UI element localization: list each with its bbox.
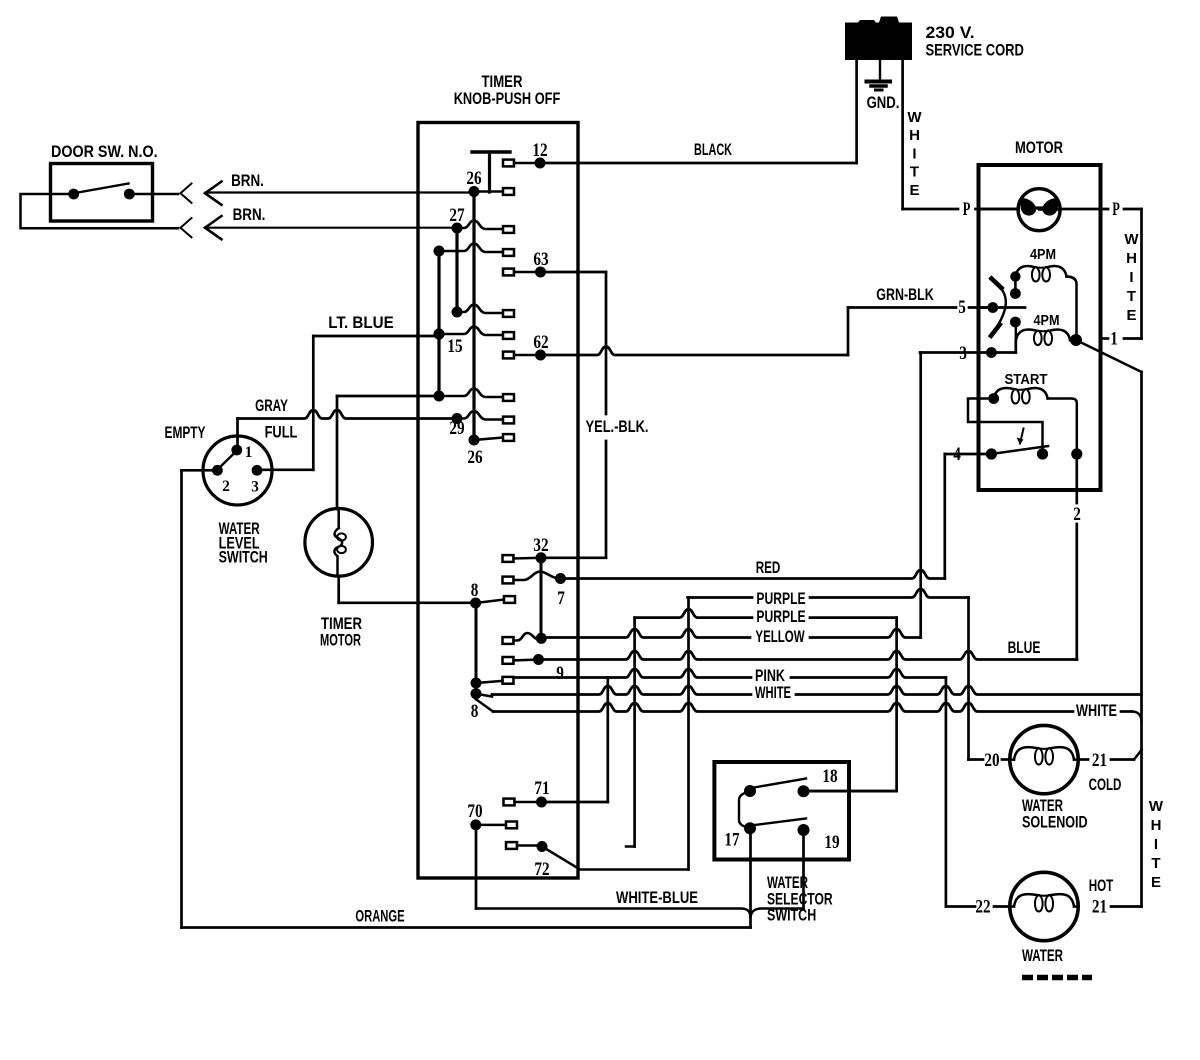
timer bus 251-396 bbox=[437, 251, 440, 396]
svg-text:I: I bbox=[1129, 269, 1133, 286]
svg-text:FULL: FULL bbox=[265, 423, 298, 442]
svg-text:26: 26 bbox=[466, 168, 481, 189]
wire GRN-BLK timer 62 to motor 5 bbox=[541, 308, 992, 356]
wire door switch to connector bbox=[129, 193, 178, 196]
timer terminal row 396 gray bbox=[434, 389, 515, 402]
selector hook 17 bbox=[724, 791, 839, 853]
timer terminal row 251 bbox=[434, 244, 515, 257]
motor start switch bbox=[986, 429, 1083, 460]
wire YELLOW bbox=[541, 629, 920, 638]
wire white to cold solenoid bbox=[477, 700, 1142, 722]
svg-text:17: 17 bbox=[724, 830, 740, 851]
svg-text:WHITE-BLUE: WHITE-BLUE bbox=[616, 888, 698, 907]
wire 72 diagonal and riser to purple bbox=[542, 598, 689, 870]
timer bus 27 segment bbox=[455, 228, 458, 312]
svg-text:63: 63 bbox=[533, 249, 548, 270]
svg-text:19: 19 bbox=[824, 832, 839, 853]
wire P into protector bbox=[979, 208, 1109, 211]
svg-text:SERVICE CORD: SERVICE CORD bbox=[926, 41, 1024, 60]
label WHITE vertical right bottom bbox=[1149, 798, 1164, 891]
wire 17 to orange bbox=[749, 917, 752, 928]
svg-text:EMPTY: EMPTY bbox=[165, 423, 206, 442]
selector contacts 18 bbox=[744, 766, 838, 797]
svg-text:RED: RED bbox=[756, 558, 781, 577]
door switch contacts bbox=[68, 184, 134, 200]
motor centrifugal contact dots bbox=[1010, 281, 1021, 299]
motor start winding bbox=[988, 388, 1077, 454]
ground symbol bbox=[867, 60, 891, 90]
svg-text:1: 1 bbox=[1110, 329, 1118, 350]
motor terminal 5 bar bbox=[979, 302, 1026, 313]
timer terminal 71 bbox=[504, 778, 550, 808]
stub vertical from purple2 bbox=[626, 618, 635, 847]
svg-text:WATER: WATER bbox=[1022, 946, 1063, 965]
svg-text:I: I bbox=[1154, 836, 1158, 853]
svg-text:W: W bbox=[1149, 798, 1164, 815]
label 230 V. SERVICE CORD bbox=[926, 23, 1024, 60]
svg-text:BRN.: BRN. bbox=[233, 205, 266, 224]
svg-text:DOOR SW. N.O.: DOOR SW. N.O. bbox=[51, 142, 158, 161]
arrowhead BRN bottom bbox=[205, 216, 222, 239]
label TIMER MOTOR bbox=[320, 614, 362, 650]
wire motor 4 to red bbox=[945, 454, 992, 579]
wire cold 21 to rail bbox=[1078, 750, 1141, 760]
svg-text:12: 12 bbox=[532, 140, 547, 161]
svg-text:COLD: COLD bbox=[1089, 775, 1122, 794]
wire P right bracket white bbox=[1124, 209, 1142, 339]
svg-text:2: 2 bbox=[222, 478, 230, 495]
timer node 8 upper bbox=[470, 580, 515, 609]
svg-text:4PM: 4PM bbox=[1030, 247, 1056, 263]
wire timer motor to node 8 bbox=[339, 576, 476, 603]
svg-text:1: 1 bbox=[245, 444, 253, 461]
wire timer 32 to YEL-BLK bbox=[541, 556, 606, 559]
svg-text:70: 70 bbox=[467, 801, 482, 822]
label WHITE vertical service bbox=[907, 109, 922, 199]
white rail right bbox=[1140, 372, 1143, 907]
svg-text:H: H bbox=[1126, 250, 1137, 267]
motor start bracket bbox=[968, 399, 1043, 455]
wire WHITE-BLUE from 70 bbox=[476, 909, 751, 917]
timer terminal 70 bbox=[467, 801, 517, 830]
wire purple upper drop to cold 20 bbox=[969, 598, 1011, 760]
svg-text:GRN-BLK: GRN-BLK bbox=[876, 285, 933, 304]
wire hot 21 to rail bbox=[1111, 905, 1142, 908]
timer mid dot on bus 439 bbox=[434, 329, 445, 340]
svg-text:HOT: HOT bbox=[1089, 876, 1114, 895]
service cord plug 230V bbox=[845, 17, 912, 61]
label WATER SOLENOID bbox=[1022, 796, 1088, 832]
timer bus node8 bbox=[475, 603, 478, 699]
svg-text:H: H bbox=[909, 127, 920, 144]
svg-text:MOTOR: MOTOR bbox=[1015, 138, 1063, 157]
svg-text:I: I bbox=[912, 145, 916, 162]
label WATER SELECTOR SWITCH bbox=[767, 873, 833, 925]
svg-text:START: START bbox=[1005, 372, 1048, 388]
svg-text:9: 9 bbox=[556, 663, 564, 684]
svg-text:MOTOR: MOTOR bbox=[320, 631, 361, 650]
timer terminal 15 row 334 bbox=[434, 327, 515, 358]
svg-text:27: 27 bbox=[449, 205, 465, 226]
svg-text:ORANGE: ORANGE bbox=[355, 907, 404, 926]
svg-text:GND.: GND. bbox=[867, 93, 900, 112]
timer box bbox=[418, 123, 578, 879]
connector chevron top bbox=[181, 184, 192, 203]
timer terminal 72 bbox=[506, 841, 550, 880]
label WATER LEVEL SWITCH bbox=[219, 519, 268, 567]
svg-text:230 V.: 230 V. bbox=[926, 23, 975, 42]
timer knob push-off switch T bar bbox=[472, 152, 510, 192]
svg-text:5: 5 bbox=[958, 297, 966, 318]
timer bus 26-29 bbox=[472, 192, 475, 441]
water selector switch box bbox=[714, 762, 849, 860]
wire RED bbox=[561, 570, 945, 579]
svg-text:62: 62 bbox=[533, 332, 548, 353]
svg-text:H: H bbox=[1151, 817, 1162, 834]
connector chevron bottom bbox=[181, 218, 192, 237]
svg-text:T: T bbox=[910, 164, 919, 181]
svg-text:YEL.-BLK.: YEL.-BLK. bbox=[586, 417, 649, 436]
diagonal 4PM to white rail bbox=[1076, 340, 1142, 372]
timer pink lug row 680 bbox=[476, 677, 513, 684]
svg-text:72: 72 bbox=[534, 859, 549, 880]
wire white drop from plug bbox=[903, 60, 1019, 209]
svg-text:8: 8 bbox=[471, 580, 479, 601]
timer motor circle bbox=[305, 509, 373, 577]
timer terminal 32 bbox=[503, 535, 549, 563]
wire motor 2 down to blue bbox=[1075, 454, 1078, 660]
svg-text:KNOB-PUSH OFF: KNOB-PUSH OFF bbox=[454, 89, 561, 108]
wire ORANGE bbox=[182, 926, 751, 929]
wire 1 into motor bbox=[1101, 337, 1109, 340]
svg-text:3: 3 bbox=[959, 343, 967, 364]
svg-text:PURPLE: PURPLE bbox=[756, 589, 805, 608]
svg-text:4PM: 4PM bbox=[1034, 313, 1060, 329]
motor protector circle bbox=[1018, 189, 1060, 231]
svg-text:20: 20 bbox=[984, 750, 999, 771]
water level switch circle bbox=[203, 436, 272, 505]
wire 17 down bbox=[749, 834, 752, 917]
motor 4PM upper winding bbox=[1010, 266, 1076, 340]
wire 70 white-blue down bbox=[475, 825, 478, 909]
svg-text:2: 2 bbox=[1073, 504, 1081, 525]
svg-text:26: 26 bbox=[467, 447, 482, 468]
wire 18 to purple riser bbox=[810, 790, 897, 793]
timer terminal 12 bbox=[503, 140, 548, 169]
wire BRN to timer 26 bbox=[206, 191, 475, 193]
svg-text:SWITCH: SWITCH bbox=[219, 548, 268, 567]
wire 71 to pink riser bbox=[542, 678, 608, 803]
timer node 8 lower dots bbox=[471, 678, 482, 723]
svg-text:29: 29 bbox=[449, 418, 464, 439]
cold water solenoid bbox=[1010, 725, 1078, 793]
motor 4PM lower winding bbox=[1010, 317, 1082, 346]
wire PURPLE upper bbox=[688, 589, 969, 598]
label WHITE vertical motor right bbox=[1124, 231, 1139, 324]
wire timer 63 right bbox=[541, 271, 607, 274]
svg-text:P: P bbox=[963, 199, 971, 220]
timer terminal row 418 full bbox=[452, 411, 515, 424]
wire door switch loop bbox=[21, 194, 179, 228]
timer bus 32 down bbox=[540, 558, 543, 639]
door switch box DOOR SW. N.O. bbox=[51, 142, 158, 221]
svg-text:21: 21 bbox=[1092, 897, 1107, 918]
timer terminal 62 bbox=[503, 332, 549, 361]
svg-text:18: 18 bbox=[822, 766, 837, 787]
svg-text:WHITE: WHITE bbox=[755, 683, 791, 702]
wire YEL-BLK vertical 63 to 32 bbox=[605, 272, 608, 558]
wire purple lower drop to selector 18 bbox=[810, 618, 897, 791]
wire LT. BLUE wls3 to timer 15 bbox=[257, 336, 439, 470]
timer node 26 bbox=[466, 168, 514, 197]
timer terminal 29 bbox=[449, 418, 514, 468]
wire BLUE bbox=[539, 651, 1078, 660]
wire GRAY timer-motor to timer bbox=[337, 396, 439, 509]
label WATER bottom cut bbox=[1022, 946, 1092, 978]
svg-text:YELLOW: YELLOW bbox=[755, 627, 804, 646]
wire BLACK timer 12 to service cord bbox=[540, 162, 857, 165]
svg-text:LT. BLUE: LT. BLUE bbox=[328, 313, 394, 332]
motor box bbox=[979, 165, 1101, 490]
wire BRN to timer 27 bbox=[206, 227, 458, 229]
svg-text:W: W bbox=[907, 109, 922, 126]
timer terminal row 312 bbox=[452, 305, 515, 318]
svg-text:BLACK: BLACK bbox=[694, 140, 732, 159]
wire 19 down bbox=[751, 836, 804, 917]
svg-text:15: 15 bbox=[447, 336, 462, 357]
timer terminal 63 bbox=[503, 249, 549, 278]
svg-text:T: T bbox=[1151, 855, 1160, 872]
wire PINK bbox=[514, 669, 946, 678]
svg-text:3: 3 bbox=[251, 479, 259, 496]
timer terminal 7 bbox=[503, 572, 567, 610]
timer terminal 27 bbox=[449, 205, 514, 234]
svg-text:WHITE: WHITE bbox=[1076, 701, 1117, 720]
svg-text:32: 32 bbox=[533, 535, 548, 556]
motor terminal 3 wire bbox=[920, 340, 1016, 358]
wire black drop from plug bbox=[855, 60, 858, 163]
svg-text:PURPLE: PURPLE bbox=[756, 607, 805, 626]
wire EMPTY wls2 to orange bbox=[182, 470, 218, 927]
svg-text:21: 21 bbox=[1092, 750, 1107, 771]
svg-text:W: W bbox=[1124, 231, 1139, 248]
svg-text:8: 8 bbox=[471, 701, 479, 722]
svg-text:7: 7 bbox=[557, 588, 565, 609]
wire FULL wls1 to timer bbox=[238, 410, 458, 444]
label TIMER KNOB-PUSH OFF bbox=[454, 72, 561, 108]
svg-text:BRN.: BRN. bbox=[231, 171, 264, 190]
svg-text:T: T bbox=[1127, 288, 1136, 305]
svg-text:71: 71 bbox=[534, 778, 549, 799]
wire motor 3 down to yellow bbox=[919, 353, 922, 638]
wire pink drop to hot 22 bbox=[946, 678, 1010, 907]
svg-text:E: E bbox=[909, 182, 919, 199]
svg-text:GRAY: GRAY bbox=[255, 396, 288, 415]
wire PURPLE lower bbox=[635, 609, 897, 618]
timer terminal 9 bbox=[503, 654, 564, 684]
arrowhead BRN top bbox=[205, 182, 222, 205]
svg-text:SOLENOID: SOLENOID bbox=[1022, 813, 1088, 832]
wire WHITE band bbox=[476, 686, 1142, 697]
svg-text:E: E bbox=[1151, 874, 1161, 891]
svg-text:P: P bbox=[1112, 199, 1120, 220]
svg-text:BLUE: BLUE bbox=[1008, 638, 1041, 657]
timer terminal row 638 bbox=[503, 633, 547, 644]
svg-text:22: 22 bbox=[975, 897, 990, 918]
hot water solenoid bbox=[1010, 872, 1078, 940]
svg-text:E: E bbox=[1126, 307, 1136, 324]
motor centrifugal actuator arc bbox=[991, 279, 1006, 336]
